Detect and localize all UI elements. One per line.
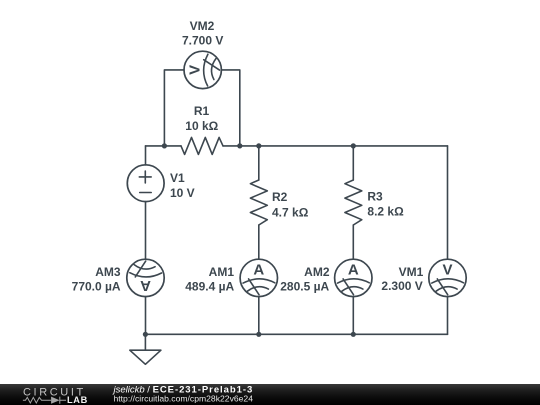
node: junction bottom rail / AM1 xyxy=(256,332,261,337)
svg-text:VM2: VM2 xyxy=(190,19,215,33)
wire: top rail left segment xyxy=(146,145,182,147)
wire: V1 bottom lead xyxy=(145,202,147,260)
wire: AM1 bottom lead xyxy=(258,297,260,335)
wire: right branch drop to VM1 xyxy=(447,146,449,259)
resistor R2 xyxy=(250,180,308,225)
node: junction bottom rail / ground xyxy=(143,332,148,337)
svg-text:V: V xyxy=(186,65,203,75)
svg-text:V: V xyxy=(442,262,452,279)
wire: R2 bottom lead xyxy=(258,225,260,259)
svg-text:770.0 µA: 770.0 µA xyxy=(72,280,121,294)
wire: V1 top lead to top rail corner xyxy=(145,146,147,165)
wire: top rail from R1 to right corner xyxy=(223,145,448,147)
wire: VM2 left leg xyxy=(164,70,184,146)
svg-text:10 kΩ: 10 kΩ xyxy=(185,119,218,133)
wire: VM1 bottom lead xyxy=(447,297,449,335)
svg-text:10 V: 10 V xyxy=(170,186,195,200)
ammeter AM1 xyxy=(185,259,277,296)
svg-text:AM2: AM2 xyxy=(304,265,330,279)
svg-text:7.700 V: 7.700 V xyxy=(182,33,223,47)
node: junction bottom rail / AM2 xyxy=(351,332,356,337)
resistor R3 xyxy=(345,180,404,225)
voltage source V1 xyxy=(127,165,194,202)
svg-text:R1: R1 xyxy=(194,104,210,118)
resistor R1 xyxy=(181,104,223,154)
svg-text:AM3: AM3 xyxy=(95,265,121,279)
wire: AM2 bottom lead xyxy=(352,297,354,335)
wire: bottom rail xyxy=(145,333,447,335)
ammeter AM2 xyxy=(280,259,372,296)
svg-text:R2: R2 xyxy=(272,190,288,204)
voltmeter VM1 xyxy=(381,259,466,296)
ammeter AM3 xyxy=(72,259,165,296)
svg-text:http://circuitlab.com/cpm28k22: http://circuitlab.com/cpm28k22v6e24 xyxy=(114,393,254,403)
wire: R3 top lead xyxy=(352,146,354,180)
node: junction rail / VM2 left leg xyxy=(162,143,167,148)
svg-text:V1: V1 xyxy=(170,171,185,185)
svg-text:2.300 V: 2.300 V xyxy=(381,279,422,293)
svg-text:VM1: VM1 xyxy=(399,265,424,279)
svg-text:489.4 µA: 489.4 µA xyxy=(185,280,234,294)
wire: AM3 bottom lead xyxy=(145,297,147,335)
svg-text:A: A xyxy=(140,277,151,294)
svg-text:A: A xyxy=(348,262,359,279)
ground xyxy=(130,350,161,364)
CircuitLab logo: resistor + diode squiggle xyxy=(23,397,66,404)
svg-text:8.2 kΩ: 8.2 kΩ xyxy=(367,205,404,219)
svg-text:LAB: LAB xyxy=(67,395,88,405)
voltmeter VM2 xyxy=(182,19,223,89)
wire: R3 bottom lead xyxy=(352,225,354,259)
wire: VM2 right leg xyxy=(221,70,239,146)
svg-text:4.7 kΩ: 4.7 kΩ xyxy=(272,205,309,219)
wire: ground stub xyxy=(144,334,146,350)
node: junction rail / R2 branch xyxy=(256,143,261,148)
node: junction rail / VM2 right leg xyxy=(237,143,242,148)
svg-text:280.5 µA: 280.5 µA xyxy=(280,280,329,294)
wire: R2 top lead xyxy=(258,146,260,180)
node: junction rail / R3 branch xyxy=(351,143,356,148)
svg-text:R3: R3 xyxy=(367,190,383,204)
svg-text:AM1: AM1 xyxy=(209,265,235,279)
svg-text:A: A xyxy=(253,262,264,279)
